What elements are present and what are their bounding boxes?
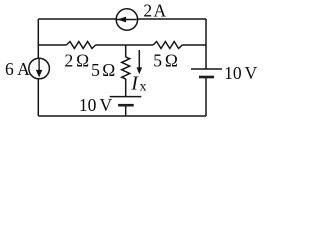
svg-text:x: x	[140, 79, 147, 94]
wire top rail	[38, 18, 206, 20]
svg-text:10 V: 10 V	[224, 63, 258, 83]
svg-text:I: I	[130, 73, 139, 95]
wire second rail middle segment	[96, 44, 153, 46]
resistor R2 5ohm horizontal zigzag	[153, 42, 182, 49]
wire right vertical upper	[205, 19, 207, 69]
wire middle branch upper	[125, 45, 127, 57]
svg-text:2 A: 2 A	[143, 0, 166, 20]
current Ix arrow	[138, 50, 140, 69]
resistor R3 5ohm vertical zigzag	[122, 57, 130, 79]
current source I2 6A circle	[29, 58, 50, 79]
battery V1 10V bottom short plate	[118, 104, 134, 107]
wire second rail left segment	[38, 44, 66, 46]
battery V2 10V right long plate	[191, 68, 222, 70]
wire battery V1 to bottom rail	[125, 106, 127, 116]
battery V2 10V right short plate	[199, 76, 214, 79]
svg-text:10 V: 10 V	[79, 95, 113, 115]
wire middle branch lower	[125, 79, 127, 97]
current source I2 6A arrow	[38, 59, 40, 71]
wire right vertical lower	[205, 78, 207, 117]
svg-text:5 Ω: 5 Ω	[153, 51, 178, 71]
battery V1 10V bottom long plate	[110, 96, 142, 98]
wire left vertical	[37, 19, 39, 116]
resistor R1 2ohm zigzag	[66, 42, 95, 49]
svg-text:6 A: 6 A	[5, 59, 30, 79]
current source I1 2A arrow	[117, 19, 137, 21]
svg-text:2 Ω: 2 Ω	[65, 51, 90, 71]
svg-text:5 Ω: 5 Ω	[91, 60, 115, 80]
wire bottom rail	[38, 115, 206, 117]
current source I1 2A circle	[116, 9, 137, 30]
wire second rail right segment	[182, 44, 206, 46]
